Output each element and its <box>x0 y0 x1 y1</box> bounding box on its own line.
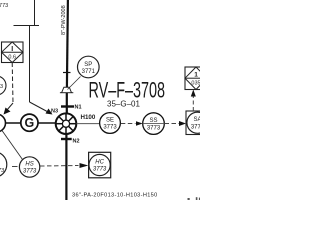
signal dash between left circle and HS <box>12 166 18 168</box>
pipe bottom run N2 <box>65 134 67 200</box>
svg-text:SS: SS <box>149 118 157 124</box>
pipe main vertical 8"-PW (top run) <box>67 0 68 88</box>
instrument circle HS 3773 <box>19 157 39 177</box>
svg-text:35–G–01: 35–G–01 <box>107 99 140 108</box>
wire (vertical down to N3 arrow) <box>29 26 31 103</box>
nozzle N1 flange bar <box>61 105 82 111</box>
instrument circle (cut at left edge, bottom) <box>0 152 7 178</box>
instrument circle 3773 (cut at left edge, middle) <box>0 76 6 95</box>
wire (vertical from top edge) <box>34 0 36 26</box>
signal wire dashed SE to SS with arrow <box>121 121 143 126</box>
rotary valve RV-F-3708 (wheel with 8 spokes) <box>56 113 77 134</box>
svg-text:3773: 3773 <box>0 3 8 9</box>
instrument circle SS 3773 (board mounted) <box>143 113 165 135</box>
signal wire H100 <box>77 114 100 124</box>
shaft wire motor to gear <box>6 122 21 124</box>
signal wire dashed SA up to interlock with arrow <box>191 90 196 112</box>
svg-text:3773: 3773 <box>103 125 117 131</box>
svg-text:SP: SP <box>84 62 92 68</box>
svg-text:3771: 3771 <box>82 69 96 75</box>
reducer/spool trapezoid on pipe <box>60 87 73 93</box>
svg-text:HC: HC <box>95 160 104 166</box>
instrument SA 3773 in square (cut at right edge) <box>186 111 209 135</box>
svg-text:36"-PA-20F013-10-H103-H150: 36"-PA-20F013-10-H103-H150 <box>72 193 158 199</box>
svg-text:035: 035 <box>191 81 200 87</box>
shaft wire gear to rotary valve <box>38 122 56 124</box>
instrument circle SP 3771 <box>78 56 100 78</box>
interlock box (top-right) with diamond, 1 / 035 <box>185 67 207 90</box>
motor circle (cut at left edge) <box>0 114 6 132</box>
linkage wire motor to HS <box>2 131 23 160</box>
svg-text:0.6: 0.6 <box>8 55 16 61</box>
pipe segment through N1 to valve <box>66 93 68 114</box>
svg-text:3773: 3773 <box>191 125 200 131</box>
svg-text:G: G <box>25 116 35 130</box>
svg-text:H100: H100 <box>81 114 96 121</box>
gearbox G circle <box>21 114 38 131</box>
signal line dashed from interlock box down to motor <box>4 63 14 115</box>
svg-text:3773: 3773 <box>23 169 37 175</box>
svg-text:N1: N1 <box>75 105 82 111</box>
svg-text:8"-PW-2008: 8"-PW-2008 <box>61 5 67 35</box>
interlock box (top-left) with diamond, I / 0.6 <box>2 42 24 63</box>
pipe joint tick <box>63 72 71 74</box>
svg-text:N2: N2 <box>73 139 80 145</box>
signal wire dashed HS to HC with arrow <box>40 163 88 168</box>
svg-text:SA: SA <box>193 117 200 123</box>
corner marks bottom-right <box>188 197 201 200</box>
leader line to SP 3771 <box>68 77 81 90</box>
svg-text:I: I <box>11 46 13 53</box>
svg-text:3773: 3773 <box>93 167 107 173</box>
signal wire dashed SS to SA with arrow <box>165 121 187 126</box>
svg-text:1: 1 <box>194 72 198 79</box>
controller HC 3773 in square <box>89 152 111 178</box>
wire (horizontal) <box>14 25 40 27</box>
svg-text:N3: N3 <box>51 109 58 115</box>
svg-text:3: 3 <box>0 84 3 90</box>
svg-text:HS: HS <box>25 162 33 168</box>
instrument circle SE 3773 <box>100 113 121 134</box>
nozzle N2 flange bar <box>61 139 80 145</box>
svg-text:3773: 3773 <box>147 126 161 132</box>
svg-text:SE: SE <box>106 118 114 124</box>
wire N3 arrow into rotary valve <box>30 102 59 115</box>
